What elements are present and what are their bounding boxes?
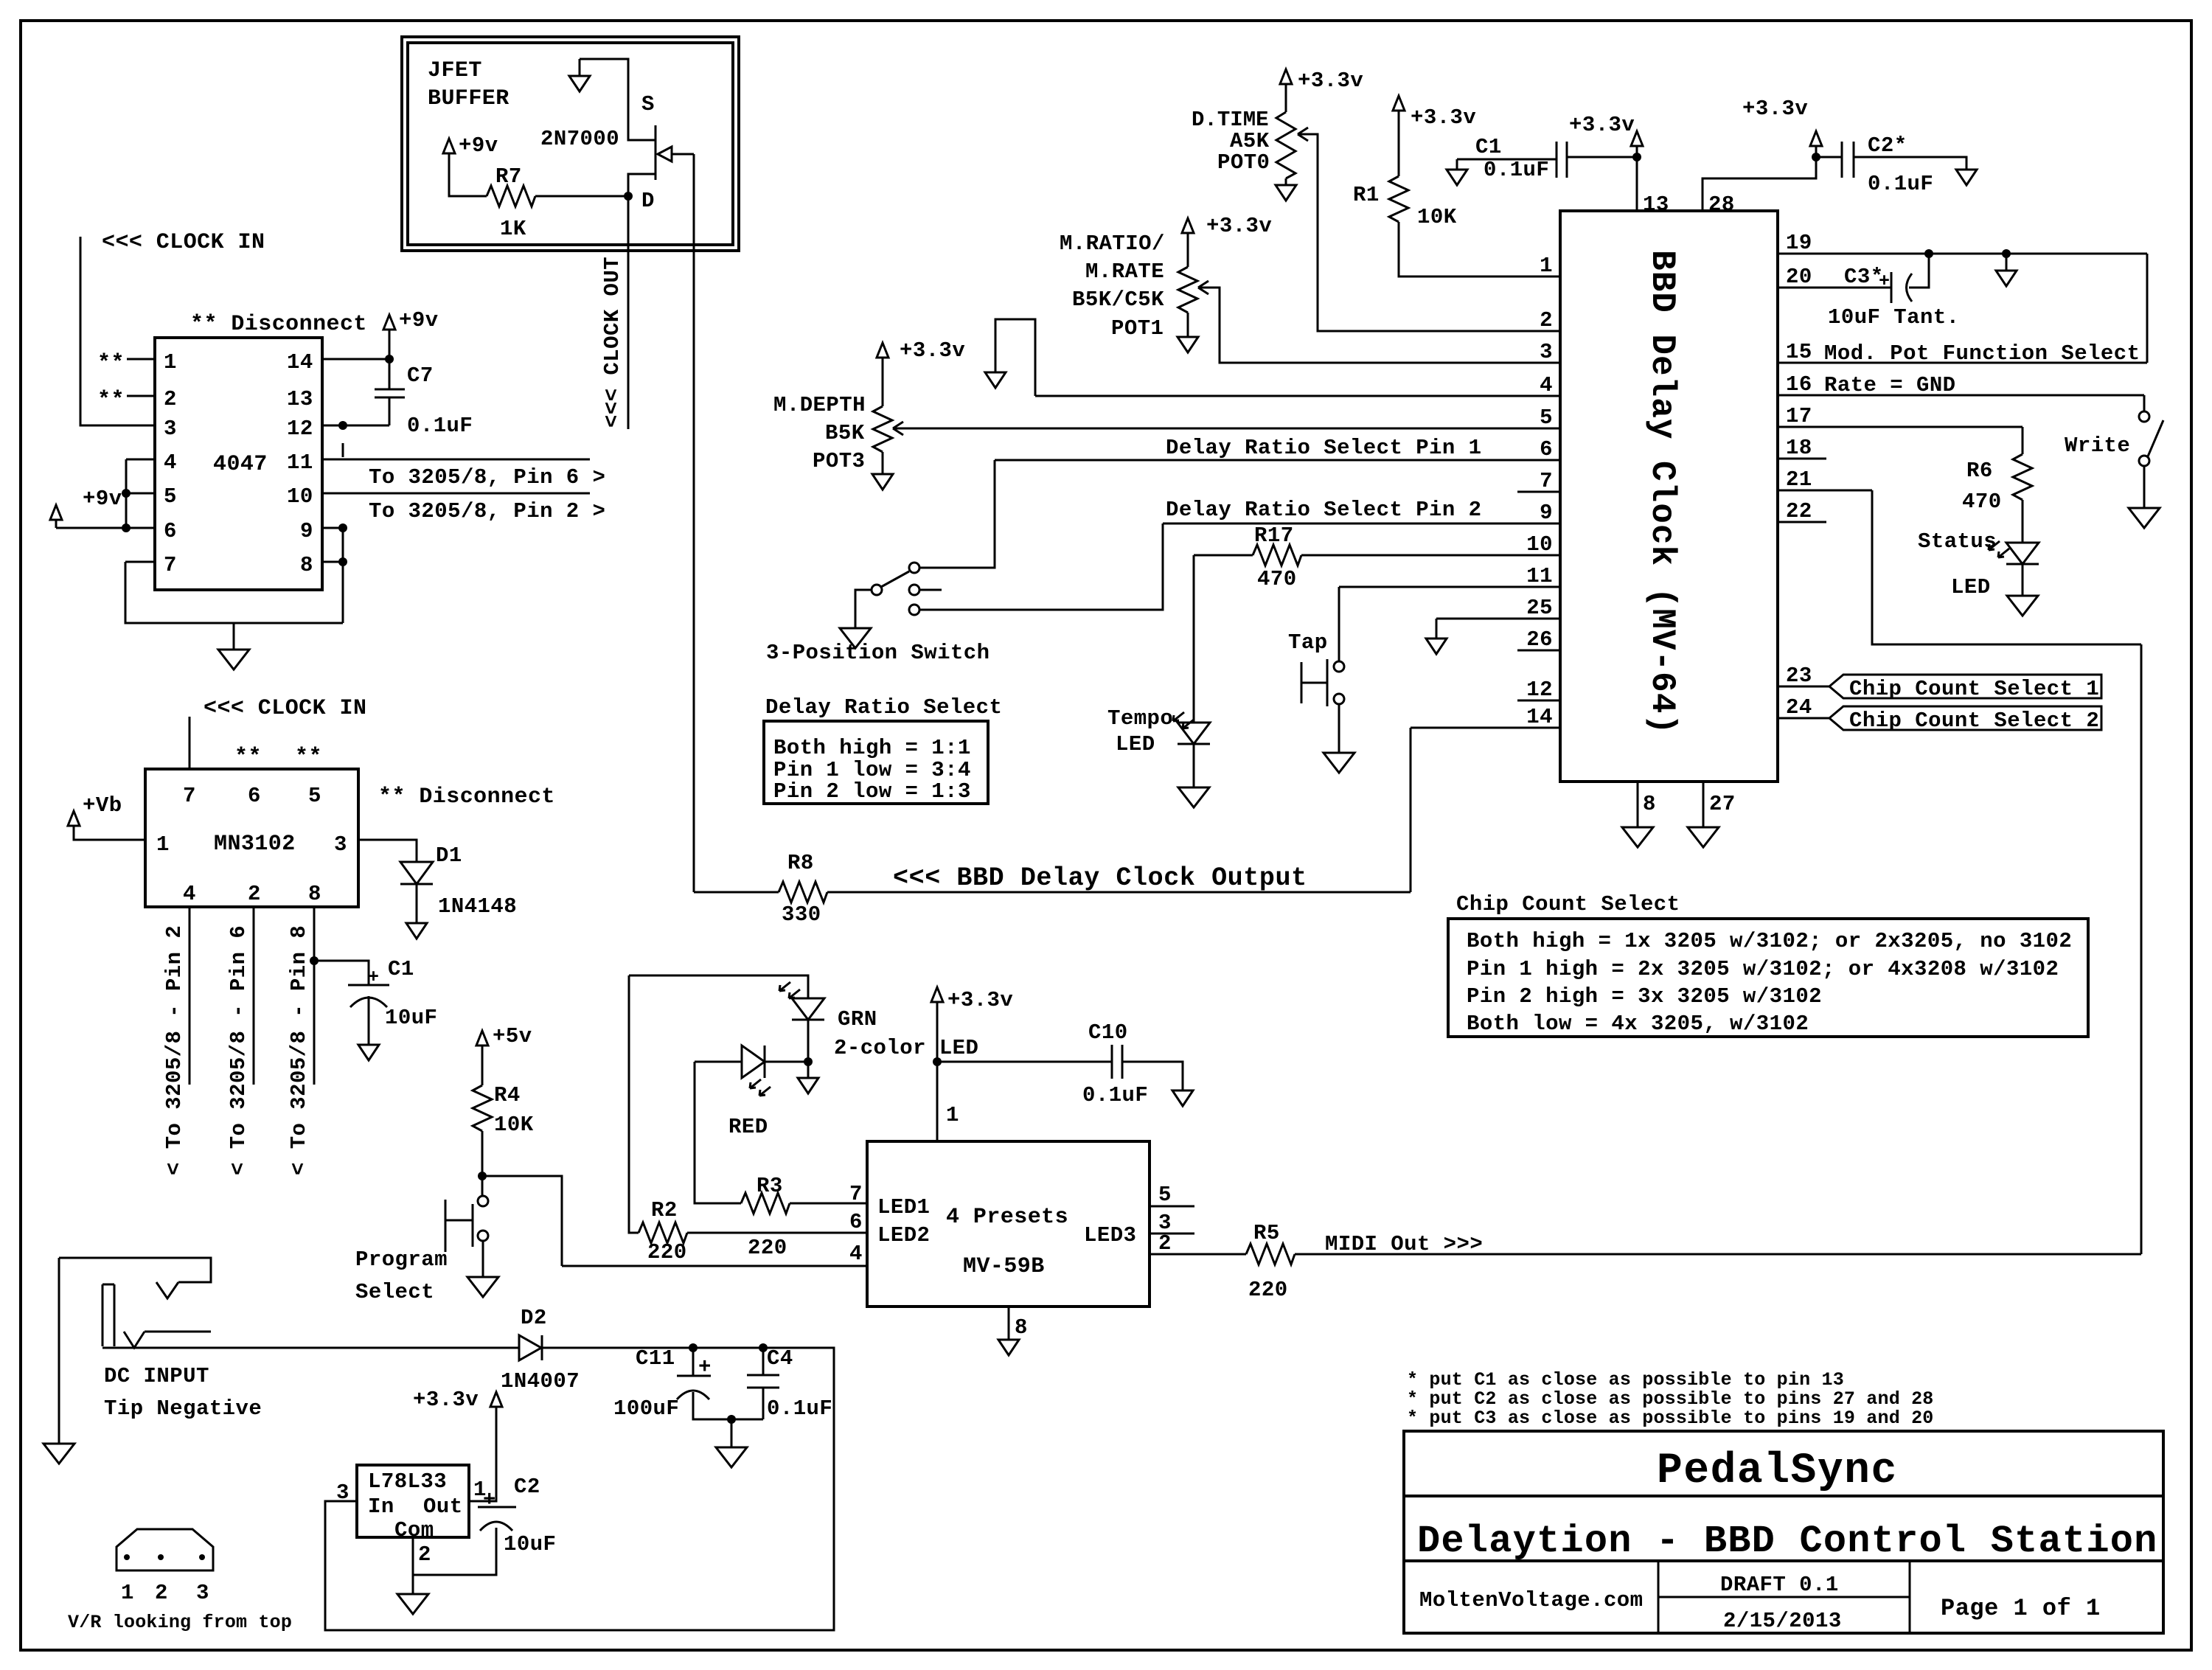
svg-text:C1: C1 <box>388 957 414 981</box>
svg-text:+3.3v: +3.3v <box>947 988 1013 1012</box>
svg-text:Delaytion - BBD Control Statio: Delaytion - BBD Control Station <box>1417 1520 2158 1563</box>
svg-text:LED3: LED3 <box>1084 1223 1136 1248</box>
svg-text:1N4148: 1N4148 <box>438 894 517 919</box>
svg-text:220: 220 <box>647 1240 687 1264</box>
svg-text:Tip Negative: Tip Negative <box>104 1396 262 1421</box>
svg-text:**: ** <box>97 351 125 376</box>
svg-text:V/R looking from top: V/R looking from top <box>68 1612 292 1633</box>
svg-text:9: 9 <box>300 519 313 543</box>
svg-text:JFET: JFET <box>428 58 482 83</box>
svg-text:C10: C10 <box>1088 1020 1128 1045</box>
svg-text:Out: Out <box>423 1495 463 1519</box>
svg-text:+: + <box>1879 271 1890 292</box>
svg-text:3-Position Switch: 3-Position Switch <box>766 641 990 665</box>
svg-text:5: 5 <box>1158 1183 1172 1207</box>
svg-text:POT1: POT1 <box>1111 316 1164 341</box>
svg-text:< To 3205/8 - Pin 6: < To 3205/8 - Pin 6 <box>226 925 251 1175</box>
svg-text:2: 2 <box>248 882 261 906</box>
svg-text:LED: LED <box>1951 575 1991 599</box>
svg-text:< To 3205/8 - Pin 2: < To 3205/8 - Pin 2 <box>162 925 187 1175</box>
svg-text:* put C3 as close as possible: * put C3 as close as possible to pins 19… <box>1407 1408 1934 1429</box>
svg-text:M.DEPTH: M.DEPTH <box>773 393 866 417</box>
svg-text:Pin 2 high = 3x 3205 w/3102: Pin 2 high = 3x 3205 w/3102 <box>1467 984 1822 1009</box>
svg-text:MoltenVoltage.com: MoltenVoltage.com <box>1419 1588 1644 1612</box>
svg-text:1: 1 <box>946 1103 959 1127</box>
svg-text:Tap: Tap <box>1288 630 1328 655</box>
svg-text:MIDI Out >>>: MIDI Out >>> <box>1325 1232 1483 1256</box>
svg-text:13: 13 <box>287 387 313 411</box>
svg-text:0.1uF: 0.1uF <box>1082 1083 1148 1107</box>
svg-text:Delay Ratio Select Pin 1: Delay Ratio Select Pin 1 <box>1166 436 1481 460</box>
svg-text:C11: C11 <box>636 1346 675 1371</box>
svg-text:C2*: C2* <box>1868 133 1907 158</box>
svg-text:* put C1 as close as possible: * put C1 as close as possible to pin 13 <box>1407 1369 1844 1391</box>
svg-text:+9v: +9v <box>399 308 439 333</box>
svg-text:** Disconnect: ** Disconnect <box>190 312 367 337</box>
svg-text:Pin 2 low = 1:3: Pin 2 low = 1:3 <box>773 779 971 804</box>
svg-text:220: 220 <box>748 1236 787 1260</box>
svg-text:1: 1 <box>121 1581 134 1605</box>
svg-text:330: 330 <box>782 902 821 927</box>
svg-text:R5: R5 <box>1253 1221 1280 1245</box>
svg-text:**: ** <box>234 745 262 770</box>
svg-text:14: 14 <box>287 350 313 375</box>
svg-text:3: 3 <box>336 1481 349 1505</box>
svg-text:LED1: LED1 <box>877 1195 930 1220</box>
svg-text:25: 25 <box>1526 596 1553 620</box>
svg-text:2: 2 <box>418 1542 431 1567</box>
svg-text:D2: D2 <box>521 1306 547 1330</box>
svg-text:DRAFT 0.1: DRAFT 0.1 <box>1720 1573 1839 1597</box>
svg-text:8: 8 <box>300 553 313 577</box>
svg-text:4 Presets: 4 Presets <box>946 1205 1068 1230</box>
svg-text:4: 4 <box>164 450 177 475</box>
svg-text:470: 470 <box>1257 567 1297 591</box>
svg-text:R6: R6 <box>1966 459 1993 483</box>
svg-text:+3.3v: +3.3v <box>1298 69 1363 93</box>
svg-text:1N4007: 1N4007 <box>501 1369 580 1394</box>
svg-text:Both high = 1:1: Both high = 1:1 <box>773 736 971 760</box>
svg-text:8: 8 <box>1643 792 1656 816</box>
svg-text:BBD Delay Clock (MV-64): BBD Delay Clock (MV-64) <box>1643 250 1681 735</box>
svg-text:7: 7 <box>1540 469 1553 493</box>
svg-text:R7: R7 <box>495 164 522 189</box>
svg-text:L78L33: L78L33 <box>368 1469 447 1494</box>
svg-text:10K: 10K <box>1417 205 1457 229</box>
svg-text:4047: 4047 <box>213 452 268 477</box>
svg-text:R2: R2 <box>651 1198 678 1222</box>
svg-text:Tempo: Tempo <box>1107 706 1173 731</box>
svg-text:100uF: 100uF <box>613 1396 679 1421</box>
svg-text:+3.3v: +3.3v <box>1742 97 1808 121</box>
svg-text:+: + <box>698 1355 712 1380</box>
svg-text:Chip Count Select 1: Chip Count Select 1 <box>1849 677 2099 701</box>
svg-text:<<< CLOCK IN: <<< CLOCK IN <box>102 230 265 255</box>
svg-text:<<< BBD Delay Clock Output: <<< BBD Delay Clock Output <box>893 863 1307 893</box>
svg-text:+9v: +9v <box>83 487 122 511</box>
svg-text:+3.3v: +3.3v <box>1569 113 1635 137</box>
svg-text:23: 23 <box>1786 664 1812 688</box>
svg-text:B5K: B5K <box>825 421 865 445</box>
svg-text:Delay Ratio Select: Delay Ratio Select <box>765 695 1002 720</box>
svg-text:+: + <box>483 1488 496 1512</box>
svg-text:RED: RED <box>728 1115 768 1139</box>
svg-text:10: 10 <box>1526 532 1553 557</box>
svg-text:3: 3 <box>164 417 177 441</box>
svg-text:10uF: 10uF <box>504 1532 556 1556</box>
svg-text:12: 12 <box>287 417 313 441</box>
svg-text:1: 1 <box>164 350 177 375</box>
svg-text:C2: C2 <box>514 1475 540 1499</box>
svg-text:**: ** <box>295 745 322 770</box>
svg-text:4: 4 <box>849 1242 863 1266</box>
svg-text:R1: R1 <box>1353 183 1380 207</box>
svg-text:BUFFER: BUFFER <box>428 86 509 111</box>
svg-text:13: 13 <box>1643 192 1669 217</box>
svg-text:22: 22 <box>1786 499 1812 523</box>
svg-text:2: 2 <box>1158 1231 1172 1256</box>
svg-text:To 3205/8, Pin 2 >: To 3205/8, Pin 2 > <box>369 499 605 523</box>
svg-text:PedalSync: PedalSync <box>1657 1447 1898 1495</box>
svg-text:5: 5 <box>308 784 321 808</box>
svg-text:5: 5 <box>1540 406 1553 430</box>
svg-text:15: 15 <box>1786 340 1812 364</box>
svg-text:8: 8 <box>1015 1315 1028 1340</box>
svg-text:GRN: GRN <box>838 1007 877 1031</box>
svg-text:470: 470 <box>1962 490 2002 514</box>
svg-text:10: 10 <box>287 484 313 509</box>
svg-text:POT0: POT0 <box>1217 150 1270 175</box>
svg-text:R3: R3 <box>757 1174 783 1198</box>
svg-text:11: 11 <box>287 450 313 475</box>
svg-text:Com: Com <box>394 1518 434 1542</box>
svg-text:** Disconnect: ** Disconnect <box>378 784 555 810</box>
svg-text:B5K/C5K: B5K/C5K <box>1072 288 1164 312</box>
svg-text:+5v: +5v <box>493 1024 532 1048</box>
svg-text:0.1uF: 0.1uF <box>1868 172 1933 196</box>
svg-text:2-color LED: 2-color LED <box>834 1036 978 1060</box>
svg-text:R8: R8 <box>787 851 814 875</box>
svg-text:2/15/2013: 2/15/2013 <box>1723 1609 1842 1633</box>
svg-text:0.1uF: 0.1uF <box>407 414 473 438</box>
svg-text:220: 220 <box>1248 1278 1288 1302</box>
svg-text:1: 1 <box>1540 254 1553 278</box>
svg-text:2: 2 <box>164 387 177 411</box>
svg-text:0.1uF: 0.1uF <box>1484 158 1549 182</box>
svg-text:4: 4 <box>1540 373 1553 397</box>
svg-text:R17: R17 <box>1254 523 1294 548</box>
svg-text:7: 7 <box>164 553 177 577</box>
svg-text:24: 24 <box>1786 695 1812 720</box>
svg-text:+3.3v: +3.3v <box>900 338 965 363</box>
svg-text:Rate = GND: Rate = GND <box>1824 373 1956 397</box>
svg-text:Chip Count Select 2: Chip Count Select 2 <box>1849 709 2099 733</box>
svg-text:C4: C4 <box>767 1346 793 1371</box>
svg-text:<<< CLOCK OUT: <<< CLOCK OUT <box>600 257 625 428</box>
svg-text:3: 3 <box>334 832 347 857</box>
svg-text:19: 19 <box>1786 231 1812 255</box>
svg-text:C1: C1 <box>1475 135 1502 159</box>
svg-text:POT3: POT3 <box>813 449 865 473</box>
svg-text:< To 3205/8 - Pin 8: < To 3205/8 - Pin 8 <box>287 925 311 1175</box>
svg-text:17: 17 <box>1786 404 1812 428</box>
svg-text:* put C2 as close as possible: * put C2 as close as possible to pins 27… <box>1407 1388 1934 1410</box>
svg-text:<<< CLOCK IN: <<< CLOCK IN <box>204 696 366 721</box>
svg-text:16: 16 <box>1786 372 1812 397</box>
svg-text:7: 7 <box>183 784 196 808</box>
svg-text:4: 4 <box>183 882 196 906</box>
svg-text:+3.3v: +3.3v <box>1206 214 1272 238</box>
svg-text:28: 28 <box>1708 192 1735 217</box>
svg-text:R4: R4 <box>494 1083 521 1107</box>
svg-text:M.RATIO/: M.RATIO/ <box>1060 232 1165 256</box>
svg-text:3: 3 <box>1540 340 1553 364</box>
svg-text:D: D <box>641 189 655 213</box>
svg-text:Program: Program <box>355 1248 448 1272</box>
svg-text:MV-59B: MV-59B <box>963 1254 1045 1279</box>
svg-text:12: 12 <box>1526 678 1553 702</box>
svg-text:10uF: 10uF <box>385 1006 437 1030</box>
svg-text:DC INPUT: DC INPUT <box>104 1364 209 1388</box>
svg-text:C7: C7 <box>407 363 434 388</box>
svg-text:2N7000: 2N7000 <box>540 127 619 151</box>
svg-text:0.1uF: 0.1uF <box>767 1396 832 1421</box>
svg-text:Page 1 of 1: Page 1 of 1 <box>1941 1595 2101 1622</box>
svg-text:Pin 1 high = 2x 3205 w/3102; o: Pin 1 high = 2x 3205 w/3102; or 4x3208 w… <box>1467 957 2059 981</box>
svg-text:M.RATE: M.RATE <box>1085 260 1164 284</box>
svg-text:D1: D1 <box>436 843 462 868</box>
svg-text:6: 6 <box>164 519 177 543</box>
svg-text:11: 11 <box>1526 564 1553 588</box>
svg-text:+3.3v: +3.3v <box>1411 105 1476 130</box>
svg-text:1: 1 <box>156 832 170 857</box>
svg-text:+3.3v: +3.3v <box>413 1388 479 1412</box>
svg-text:Select: Select <box>355 1280 434 1304</box>
svg-text:6: 6 <box>1540 437 1553 462</box>
svg-text:+: + <box>368 967 379 988</box>
svg-text:20: 20 <box>1786 265 1812 289</box>
svg-text:6: 6 <box>248 784 261 808</box>
svg-text:Status: Status <box>1918 529 1997 554</box>
svg-text:8: 8 <box>308 882 321 906</box>
svg-text:27: 27 <box>1709 792 1736 816</box>
svg-text:21: 21 <box>1786 467 1812 492</box>
svg-text:Both high = 1x 3205 w/3102; or: Both high = 1x 3205 w/3102; or 2x3205, n… <box>1467 929 2072 953</box>
svg-text:Delay Ratio Select Pin 2: Delay Ratio Select Pin 2 <box>1166 498 1481 522</box>
svg-text:6: 6 <box>849 1210 863 1234</box>
svg-text:1K: 1K <box>500 217 526 241</box>
svg-text:Write: Write <box>2065 434 2130 458</box>
svg-text:2: 2 <box>1540 308 1553 333</box>
svg-text:18: 18 <box>1786 436 1812 460</box>
svg-text:In: In <box>368 1495 394 1519</box>
svg-text:5: 5 <box>164 484 177 509</box>
svg-text:MN3102: MN3102 <box>214 832 296 857</box>
svg-text:LED: LED <box>1116 732 1155 756</box>
svg-text:To 3205/8, Pin 6 >: To 3205/8, Pin 6 > <box>369 465 605 490</box>
svg-text:+9v: +9v <box>459 133 498 158</box>
svg-text:C3*: C3* <box>1844 265 1884 289</box>
svg-text:7: 7 <box>849 1182 863 1206</box>
svg-text:9: 9 <box>1540 501 1553 525</box>
svg-text:26: 26 <box>1526 627 1553 652</box>
svg-text:+Vb: +Vb <box>83 793 122 818</box>
svg-text:LED2: LED2 <box>877 1223 930 1248</box>
svg-text:3: 3 <box>196 1581 209 1605</box>
svg-text:10uF Tant.: 10uF Tant. <box>1828 305 1960 330</box>
svg-text:2: 2 <box>155 1581 168 1605</box>
svg-text:Chip Count Select: Chip Count Select <box>1456 892 1680 916</box>
svg-text:Both low = 4x 3205, w/3102: Both low = 4x 3205, w/3102 <box>1467 1012 1809 1036</box>
svg-text:**: ** <box>97 388 125 413</box>
svg-text:Mod. Pot Function Select: Mod. Pot Function Select <box>1824 341 2140 366</box>
svg-text:14: 14 <box>1526 705 1553 729</box>
svg-text:10K: 10K <box>494 1113 534 1137</box>
svg-text:S: S <box>641 92 655 116</box>
